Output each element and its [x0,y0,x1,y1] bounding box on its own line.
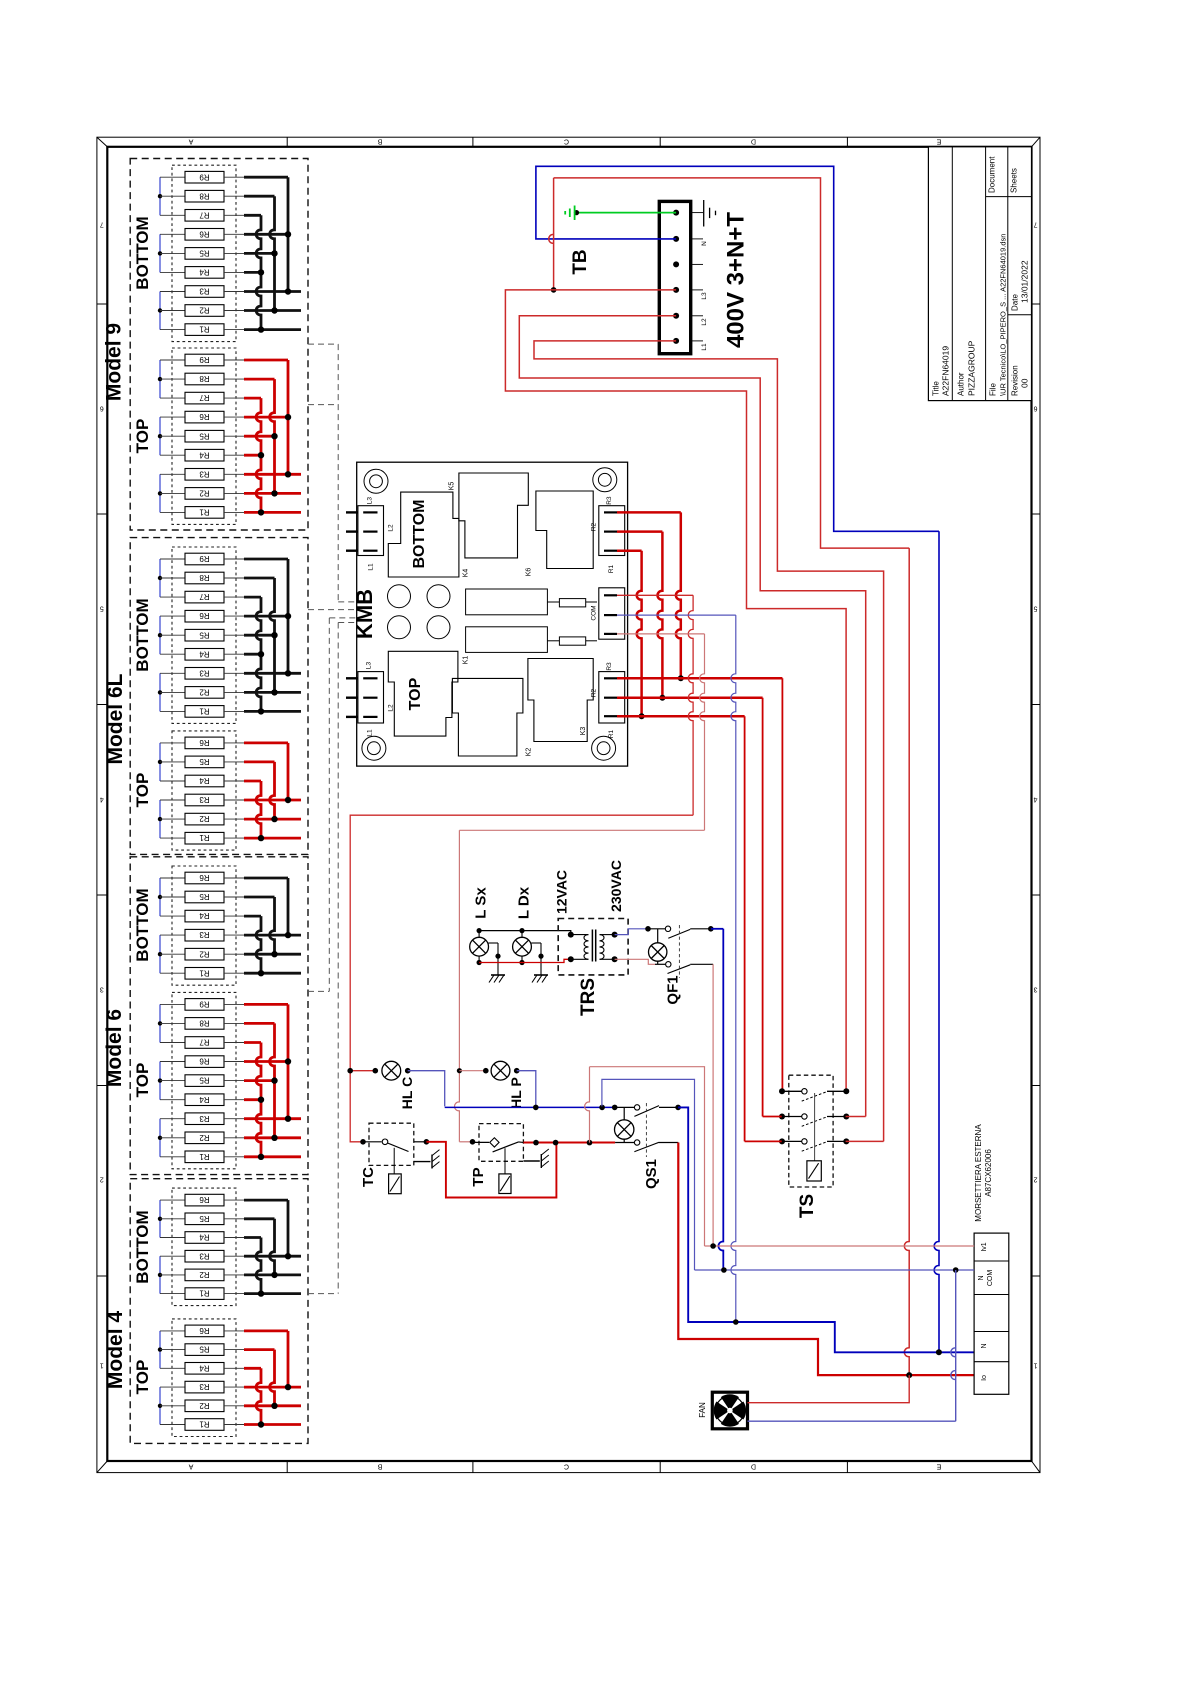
svg-text:R2: R2 [199,949,210,958]
relay coil K-TOP [466,627,597,653]
svg-text:1: 1 [1033,1362,1037,1369]
svg-text:R8: R8 [199,573,210,582]
svg-text:A22FN64019: A22FN64019 [941,346,951,396]
svg-text:L1: L1 [701,343,708,351]
svg-text:L3: L3 [367,497,374,505]
svg-text:KMB: KMB [352,589,377,639]
svg-text:R6: R6 [199,738,210,747]
svg-text:R2: R2 [199,688,210,697]
TS right wires to L1 L2 L3 [846,1117,884,1142]
wire L2 TB to TS pole2 [519,316,865,1117]
svg-text:230VAC: 230VAC [608,860,624,912]
Model 6L BOTTOM common feed brackets [158,559,162,711]
svg-text:L3: L3 [365,662,372,670]
resistor R6 (Model 6L TOP) [160,737,244,749]
relay K6 [526,491,594,576]
svg-text:K2: K2 [526,748,533,757]
svg-text:R1: R1 [608,564,615,573]
svg-text:A: A [188,1463,193,1470]
Model 9 BOTTOM dashed box [172,165,236,341]
svg-text:QF1: QF1 [665,975,682,1004]
resistor R8 (Model 9 BOTTOM) [160,190,244,202]
svg-text:7: 7 [1033,221,1037,228]
terminal strip MORSETTIERA ESTERNA [974,1233,1009,1394]
resistor R4 (Model 9 BOTTOM) [160,267,244,279]
svg-text:R5: R5 [199,757,210,766]
svg-text:R3: R3 [199,795,210,804]
wire COM neutral (blue) [731,615,736,1322]
resistor R1 (Model 6 BOTTOM) [160,968,244,980]
lamp L Dx [513,886,533,965]
svg-text:File: File [989,383,998,396]
svg-text:R3: R3 [199,287,210,296]
svg-text:00: 00 [1020,378,1030,388]
svg-text:C: C [564,1463,569,1470]
svg-text:L Sx: L Sx [473,887,490,919]
svg-text:Io: Io [981,1375,988,1381]
wire QS1 red out to Io terminal [678,1143,974,1379]
wire QF1 out blue [711,929,724,1270]
resistor R7 (Model 6 TOP) [160,1037,244,1049]
resistor R4 (Model 6 BOTTOM) [160,910,244,922]
lamp HL P [459,1061,524,1109]
svg-text:R2: R2 [199,814,210,823]
resistor R6 (Model 9 BOTTOM) [160,229,244,241]
TS left wires from KMB rows [745,1117,782,1142]
resistor R9 (Model 9 TOP) [160,354,244,366]
KMB connector R (TOP outputs) [591,662,625,738]
wire HL P to N (blue) [517,1071,536,1107]
wire N COM (blue) [695,1267,975,1273]
Model 6 TOP dashed box [172,992,236,1168]
wire HL C to N (blue) [408,1071,445,1107]
margin numbers [100,221,1038,1369]
svg-text:R3: R3 [199,1251,210,1260]
resistor R5 (Model 4 TOP) [160,1344,244,1356]
svg-text:5: 5 [100,605,104,612]
wire COM aux (light red) to TP feed [455,634,705,1142]
svg-text:\UR Tecnico\LO_PIPERO_S ... A2: \UR Tecnico\LO_PIPERO_S ... A22FN64019.d… [999,234,1008,396]
resistor R4 (Model 4 TOP) [160,1363,244,1375]
relay K3 [528,659,593,742]
svg-text:TS: TS [797,1194,818,1218]
harness dashed trunk [329,344,338,1294]
svg-text:D: D [751,138,756,145]
resistor R8 (Model 6 TOP) [160,1018,244,1030]
relay K4 [388,492,469,577]
svg-text:E: E [936,138,941,145]
lamp L Dx earth branch [531,943,548,983]
earth symbol at TB right [704,200,716,227]
Model 6 outer dashed box [130,857,308,1175]
svg-text:R2: R2 [199,489,210,498]
svg-text:R9: R9 [199,172,210,181]
transformer TRS windings [568,930,618,963]
svg-text:L2: L2 [701,318,708,326]
resistor R2 (Model 6 TOP) [160,1132,244,1144]
svg-text:6: 6 [1033,405,1037,412]
svg-text:Date: Date [1011,294,1020,311]
svg-text:R7: R7 [199,592,210,601]
wire TC out to TP bus [426,1142,556,1198]
Model 9 outer dashed box [130,159,308,531]
svg-text:K4: K4 [463,569,470,578]
wire L3 branch (red) top loop [549,178,909,548]
resistor R5 (Model 6L BOTTOM) [160,629,244,641]
Model 6L TOP common feed brackets [158,743,162,838]
resistor R3 (Model 4 BOTTOM) [160,1250,244,1262]
resistor R2 (Model 6 BOTTOM) [160,948,244,960]
svg-text:R5: R5 [199,1345,210,1354]
resistor R9 (Model 6 TOP) [160,999,244,1011]
resistor R5 (Model 9 TOP) [160,430,244,442]
Model 6 BOTTOM phase bus wires [244,878,301,976]
svg-text:5: 5 [1033,605,1037,612]
svg-text:R1: R1 [199,508,210,517]
resistor R3 (Model 9 TOP) [160,469,244,481]
svg-text:4: 4 [100,796,104,803]
svg-text:3: 3 [100,986,104,993]
svg-text:R2: R2 [591,688,598,697]
Model 9 TOP dashed box [172,348,236,524]
resistor R7 (Model 6L BOTTOM) [160,591,244,603]
resistor R3 (Model 6 TOP) [160,1113,244,1125]
resistor R5 (Model 6 TOP) [160,1075,244,1087]
svg-text:R3: R3 [199,469,210,478]
resistor R8 (Model 6L BOTTOM) [160,572,244,584]
svg-text:L Dx: L Dx [516,886,533,919]
KMB connector R (BOTTOM outputs) [591,496,625,573]
KMB sockets [388,585,451,639]
svg-text:R7: R7 [199,210,210,219]
svg-text:R4: R4 [199,649,210,658]
svg-text:R4: R4 [199,776,210,785]
svg-text:R2: R2 [199,306,210,315]
svg-text:R5: R5 [199,249,210,258]
Model 6L BOTTOM phase bus wires [244,559,301,715]
svg-text:R4: R4 [199,1233,210,1242]
wire QS1 aux branch (thin red) [585,1067,705,1246]
svg-text:R7: R7 [199,393,210,402]
svg-text:4: 4 [1033,796,1037,803]
svg-text:7: 7 [100,221,104,228]
resistor R1 (Model 6L TOP) [160,832,244,844]
breaker QF1 [648,925,714,1005]
Model 6L TOP phase bus wires [244,743,301,841]
resistor R1 (Model 9 TOP) [160,507,244,519]
svg-text:Model 6: Model 6 [103,1009,126,1087]
svg-text:COM: COM [591,605,598,620]
resistor R2 (Model 9 TOP) [160,488,244,500]
resistor R3 (Model 6L BOTTOM) [160,668,244,680]
resistor R9 (Model 6L BOTTOM) [160,553,244,565]
svg-text:R6: R6 [199,229,210,238]
svg-text:Revision: Revision [1011,365,1020,396]
svg-text:R1: R1 [199,968,210,977]
resistor R5 (Model 6 BOTTOM) [160,891,244,903]
transformer TRS box [558,919,628,975]
wire TP feed (light red) [459,1139,475,1145]
resistor R6 (Model 9 TOP) [160,411,244,423]
relay K5 [449,473,529,558]
svg-text:R3: R3 [199,668,210,677]
svg-text:R1: R1 [199,1152,210,1161]
MORSETTIERA label [974,1124,993,1222]
svg-text:R6: R6 [199,412,210,421]
svg-text:TRS: TRS [578,978,599,1016]
resistor R1 (Model 9 BOTTOM) [160,324,244,336]
svg-text:R1: R1 [199,833,210,842]
svg-text:HL C: HL C [399,1077,415,1109]
svg-text:Document: Document [988,156,997,193]
svg-text:R8: R8 [199,191,210,200]
svg-text:R7: R7 [199,1038,210,1047]
wire TRS 230V top to QF1 (blue) [615,926,651,935]
svg-text:TP: TP [470,1167,487,1186]
resistor R1 (Model 4 BOTTOM) [160,1288,244,1300]
Model 4 TOP dashed box [172,1319,236,1437]
relay coil K-BOTTOM [466,589,597,615]
margin letters [188,138,941,1470]
fan FAN [698,1392,748,1429]
svg-text:R1: R1 [199,325,210,334]
resistor R3 (Model 6L TOP) [160,794,244,806]
TS pole 3 [779,1138,849,1151]
svg-text:L1: L1 [367,729,374,737]
svg-text:Title: Title [932,381,941,396]
wire Iv1 (light red) [705,1243,975,1249]
svg-text:A87CX62006: A87CX62006 [984,1149,993,1197]
svg-text:TOP: TOP [133,773,152,808]
svg-text:R2: R2 [199,1401,210,1410]
svg-text:L3: L3 [701,292,708,300]
resistor R6 (Model 6 BOTTOM) [160,872,244,884]
earth symbol PE (green) [565,206,574,221]
resistor R2 (Model 4 TOP) [160,1400,244,1412]
Model 6 TOP common feed brackets [158,1004,162,1156]
resistor R9 (Model 9 BOTTOM) [160,171,244,183]
relay K1 [388,651,469,736]
resistor R3 (Model 4 TOP) [160,1381,244,1393]
svg-text:K1: K1 [463,656,470,665]
svg-text:6: 6 [100,405,104,412]
svg-text:K3: K3 [580,727,587,736]
earth at TC [414,1150,440,1169]
Model 6 BOTTOM common feed brackets [158,878,162,973]
Model 6 TOP phase bus wires [244,1004,301,1160]
svg-text:BOTTOM: BOTTOM [133,216,152,289]
wire 12VAC bottom (red) [479,959,571,962]
resistor R3 (Model 9 BOTTOM) [160,286,244,298]
svg-text:TB: TB [570,249,591,274]
svg-text:QS1: QS1 [643,1159,660,1189]
svg-text:D: D [751,1463,756,1470]
svg-text:12VAC: 12VAC [554,870,570,914]
svg-text:R6: R6 [199,1326,210,1335]
svg-text:E: E [936,1463,941,1470]
svg-text:400V 3+N+T: 400V 3+N+T [723,212,750,348]
terminal block TB [659,201,703,353]
svg-text:R3: R3 [606,662,613,671]
wire N bus at switches (blue) [445,1105,618,1111]
svg-text:R6: R6 [199,873,210,882]
switch TS box [789,1075,833,1187]
resistor R6 (Model 6 TOP) [160,1056,244,1068]
TB pin labels [701,241,708,351]
resistor R5 (Model 4 BOTTOM) [160,1213,244,1225]
wire QF1 out red [712,964,714,1246]
svg-text:R9: R9 [199,554,210,563]
svg-text:R2: R2 [591,522,598,531]
svg-text:Model 4: Model 4 [104,1311,127,1389]
resistor R4 (Model 6L TOP) [160,775,244,787]
svg-text:2: 2 [100,1176,104,1183]
resistor R2 (Model 9 BOTTOM) [160,305,244,317]
wire 12VAC top (black) [479,931,571,935]
resistor R7 (Model 9 TOP) [160,392,244,404]
resistor R5 (Model 6L TOP) [160,756,244,768]
wire FAN blue [748,1270,956,1421]
svg-text:R2: R2 [199,1133,210,1142]
title block texts [932,156,1030,396]
svg-text:BOTTOM: BOTTOM [133,598,152,671]
resistor R2 (Model 6L TOP) [160,813,244,825]
Model 6 BOTTOM dashed box [172,866,236,985]
protective earth wire (green) [574,210,676,215]
svg-text:R8: R8 [199,1019,210,1028]
svg-text:K6: K6 [526,568,533,577]
resistor R5 (Model 9 BOTTOM) [160,248,244,260]
svg-text:L1: L1 [368,563,375,571]
svg-text:R3: R3 [199,1114,210,1123]
svg-text:R3: R3 [606,496,613,505]
border frame [97,137,1040,1472]
resistor R3 (Model 6 BOTTOM) [160,929,244,941]
svg-text:TOP: TOP [133,419,152,454]
wire KMB R2 bottom-bank output [617,532,665,701]
resistor R1 (Model 6 TOP) [160,1151,244,1163]
Model 4 BOTTOM dashed box [172,1188,236,1306]
svg-text:R3: R3 [199,930,210,939]
wire N (blue) TB to right side [536,166,939,1352]
svg-text:R6: R6 [199,1057,210,1066]
svg-text:R5: R5 [199,892,210,901]
wire KMB row R3 to TS pole1 left [617,678,782,1091]
svg-text:N: N [978,1275,985,1280]
svg-text:Author: Author [957,372,966,396]
wire KMB row R2 to TS pole2 left [617,698,763,1117]
TS linkage and actuator [807,1093,821,1181]
svg-text:TC: TC [360,1167,377,1187]
svg-text:N: N [981,1343,988,1348]
Model 6L outer dashed box [130,538,308,855]
svg-text:B: B [377,138,382,145]
svg-text:R4: R4 [199,268,210,277]
svg-text:TOP: TOP [133,1360,152,1395]
svg-text:PIZZAGROUP: PIZZAGROUP [967,340,977,396]
svg-text:R4: R4 [199,911,210,920]
Model 4 BOTTOM common feed brackets [158,1200,162,1294]
Model 4 TOP phase bus wires [244,1331,301,1428]
wire COM phase (red) to TC feed [350,595,693,1142]
svg-text:B: B [377,1463,382,1470]
svg-text:N: N [701,241,708,246]
KMB connector COM [591,588,625,639]
resistor R1 (Model 6L BOTTOM) [160,706,244,718]
svg-text:C: C [564,138,569,145]
Model 9 TOP common feed brackets [158,360,162,512]
KMB mounting holes [362,468,617,760]
KMB connector L (BOTTOM bank) [346,497,395,571]
wire TP out to QS1 (red) [523,1140,615,1146]
title block [928,147,1031,401]
lamp QF1 indicator [649,929,667,965]
svg-text:R1: R1 [199,707,210,716]
resistor R1 (Model 4 TOP) [160,1419,244,1431]
svg-text:K5: K5 [449,482,456,491]
relay K2 [452,678,532,756]
svg-text:R1: R1 [199,1289,210,1298]
resistor R4 (Model 9 TOP) [160,449,244,461]
svg-text:R5: R5 [199,1214,210,1223]
svg-text:Model 9: Model 9 [103,323,126,401]
svg-text:Sheets: Sheets [1010,168,1019,193]
resistor R6 (Model 4 BOTTOM) [160,1194,244,1206]
svg-text:Iv1: Iv1 [981,1242,988,1251]
lamp QS1 indicator [615,1107,634,1142]
resistor R4 (Model 6L BOTTOM) [160,649,244,661]
harness stubs [308,344,357,1294]
wire TRS 230V bottom to QF1 (red) [615,959,655,964]
wire KMB R3 bottom-bank output [617,512,684,681]
svg-text:R4: R4 [199,1363,210,1372]
KMB connector L (TOP bank) [346,662,395,737]
wire L3 TB to TS pole1 [505,290,846,1091]
Model 6L BOTTOM dashed box [172,547,236,723]
svg-text:BOTTOM: BOTTOM [133,888,152,961]
svg-text:R5: R5 [199,1076,210,1085]
svg-text:R1: R1 [608,729,615,738]
svg-text:FAN: FAN [698,1402,707,1418]
svg-text:COM: COM [987,1270,994,1287]
svg-text:MORSETTIERA ESTERNA: MORSETTIERA ESTERNA [974,1124,983,1222]
svg-text:13/01/2022: 13/01/2022 [1020,260,1030,303]
svg-text:R4: R4 [199,1095,210,1104]
resistor R4 (Model 4 BOTTOM) [160,1232,244,1244]
resistor R6 (Model 6L BOTTOM) [160,610,244,622]
wire FAN red [748,1375,910,1403]
wire QS1 blue out to N terminal [678,1107,974,1355]
wire branch to Io/FAN (red vertical right) [904,548,909,1375]
svg-text:R6: R6 [199,611,210,620]
svg-text:TOP: TOP [407,677,424,710]
svg-text:TOP: TOP [133,1063,152,1098]
svg-text:R5: R5 [199,431,210,440]
svg-text:R1: R1 [199,1420,210,1429]
thermostat TP [470,1124,523,1194]
resistor R6 (Model 4 TOP) [160,1325,244,1337]
svg-text:R2: R2 [199,1270,210,1279]
wire KMB R1 bottom-bank output [617,551,645,720]
KMB board outline [357,462,628,766]
svg-text:Model 6L: Model 6L [104,673,127,764]
thermostat TC [360,1123,429,1194]
svg-text:R8: R8 [199,374,210,383]
Model 4 BOTTOM phase bus wires [244,1200,301,1297]
resistor R4 (Model 6 TOP) [160,1094,244,1106]
resistor R2 (Model 4 BOTTOM) [160,1269,244,1281]
svg-text:R9: R9 [199,1000,210,1009]
